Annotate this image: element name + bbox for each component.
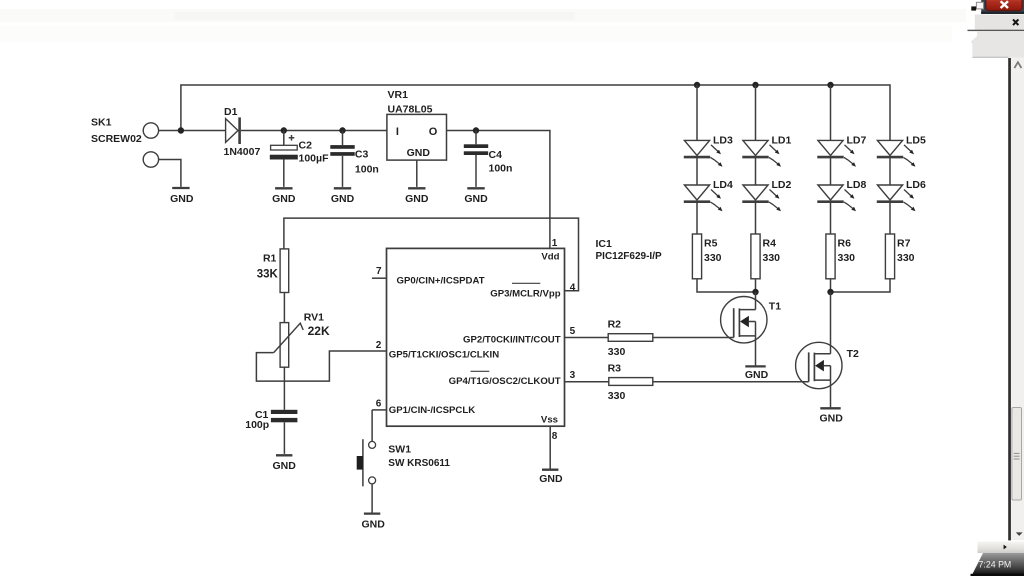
svg-text:LD4: LD4 — [713, 179, 733, 191]
wire LD6 to R7 — [889, 203, 891, 234]
svg-text:33K: 33K — [257, 269, 279, 281]
junction +V rail / LD1 column — [752, 82, 758, 88]
LED LD1 — [743, 140, 768, 155]
wire rail to LD1 — [755, 85, 757, 140]
svg-text:T2: T2 — [847, 348, 859, 360]
junction T1 drain node — [752, 289, 758, 295]
capacitor C1 — [271, 410, 298, 414]
resistor R5 — [692, 234, 701, 279]
svg-text:330: 330 — [608, 346, 626, 358]
ground GND (T1) — [745, 365, 765, 367]
wire R5 bottom to T1 drain node — [697, 279, 756, 292]
junction C2 node — [281, 127, 287, 133]
regulator VR1 — [387, 114, 447, 160]
svg-text:GND: GND — [820, 413, 844, 425]
wire Vss to ground — [549, 426, 551, 469]
svg-text:UA78L05: UA78L05 — [388, 103, 433, 115]
capacitor C2 — [283, 131, 285, 146]
junction +V rail / LD7 column — [827, 82, 833, 88]
wire SW1 to ground — [371, 484, 373, 513]
junction T2 drain node — [827, 289, 833, 295]
junction C4 node — [473, 127, 479, 133]
ground GND (SK1) — [172, 187, 189, 189]
svg-text:C3: C3 — [355, 149, 369, 161]
svg-text:GND: GND — [464, 193, 488, 205]
capacitor C4 — [475, 131, 477, 145]
connector SK1 pin 2 — [143, 152, 158, 167]
svg-text:R6: R6 — [838, 237, 852, 249]
connector SK1 pin 1 — [143, 123, 158, 138]
svg-text:GP3/MCLR/Vpp: GP3/MCLR/Vpp — [490, 288, 560, 299]
window border edge — [1008, 58, 1011, 540]
svg-text:LD7: LD7 — [847, 135, 867, 147]
svg-text:GND: GND — [745, 369, 769, 381]
wire RV1 to C1 — [283, 367, 285, 410]
wire VR1 output to Vdd — [447, 131, 550, 249]
wire LD2 to R4 — [755, 203, 757, 234]
toolbar band lower — [971, 31, 1024, 58]
svg-text:LD2: LD2 — [772, 179, 792, 191]
IC1 pin 6 stub — [372, 409, 386, 411]
resistor R7 — [885, 234, 894, 279]
svg-text:GND: GND — [362, 519, 386, 531]
scrollbar up arrow — [1014, 62, 1021, 68]
svg-text:3: 3 — [570, 370, 576, 381]
LED LD6 — [877, 185, 902, 200]
wire pin6 to SW1 — [371, 410, 373, 441]
svg-text:7:24 PM: 7:24 PM — [979, 559, 1012, 569]
LED LD4 — [684, 185, 709, 200]
scrollbar down arrow — [1016, 532, 1023, 536]
svg-text:GP2/T0CKI/INT/COUT: GP2/T0CKI/INT/COUT — [463, 334, 561, 345]
wire SK1 to D1 anode — [159, 130, 226, 132]
svg-text:330: 330 — [763, 252, 781, 264]
svg-text:100µF: 100µF — [299, 153, 330, 165]
wire R1 to RV1 — [283, 293, 285, 323]
svg-text:5: 5 — [570, 326, 576, 337]
scrollbar thumb grip — [1014, 453, 1020, 454]
capacitor C3 — [342, 131, 344, 146]
wire LD4 to R5 — [696, 203, 698, 234]
junction C3 node — [339, 127, 345, 133]
svg-text:330: 330 — [608, 390, 626, 402]
ground GND (C4) — [467, 187, 484, 189]
wire LD7 to LD8 — [830, 158, 832, 185]
svg-text:330: 330 — [704, 252, 722, 264]
svg-text:LD6: LD6 — [906, 179, 926, 191]
svg-text:R2: R2 — [608, 319, 622, 331]
inner close glyph — [1013, 19, 1018, 25]
svg-text:6: 6 — [376, 399, 382, 410]
svg-text:R3: R3 — [608, 362, 622, 374]
svg-text:22K: 22K — [308, 324, 330, 338]
taskbar notification arrow — [1004, 545, 1007, 550]
wire T1 source to ground — [755, 336, 757, 366]
IC1 T1G overline — [471, 370, 490, 372]
resistor R6 — [826, 234, 835, 279]
svg-text:GND: GND — [170, 193, 194, 205]
taskbar tray row — [978, 542, 1024, 553]
svg-text:R4: R4 — [763, 237, 777, 249]
ground GND (C1) — [276, 454, 292, 456]
svg-text:100n: 100n — [489, 163, 513, 175]
svg-text:O: O — [429, 126, 438, 138]
svg-text:1N4007: 1N4007 — [224, 146, 261, 158]
svg-text:LD8: LD8 — [847, 179, 867, 191]
wire rail to LD7 — [830, 85, 832, 140]
svg-text:GND: GND — [405, 193, 429, 205]
svg-text:GP5/T1CKI/OSC1/CLKIN: GP5/T1CKI/OSC1/CLKIN — [389, 349, 499, 360]
svg-text:GND: GND — [539, 473, 563, 485]
ground GND (T2) — [820, 407, 840, 409]
svg-text:Vdd: Vdd — [541, 252, 559, 263]
window title bar fragment — [981, 0, 1024, 14]
IC1 pin 7 stub — [372, 277, 387, 279]
svg-text:T1: T1 — [769, 300, 781, 312]
svg-text:R1: R1 — [263, 252, 277, 264]
ground GND (VR1) — [408, 187, 425, 189]
svg-text:RV1: RV1 — [304, 311, 324, 323]
resistor R3 — [609, 378, 653, 386]
IC1 pin 5 stub — [565, 337, 609, 339]
wire LD8 to R6 — [830, 203, 832, 234]
wire R6 bottom to T2 drain node — [830, 279, 832, 292]
wire T2 source to ground — [830, 380, 832, 407]
LED LD5 — [877, 140, 902, 155]
wire LD5 to LD6 — [889, 158, 891, 185]
ground GND (C3) — [334, 187, 351, 189]
svg-text:4: 4 — [570, 282, 576, 293]
svg-text:2: 2 — [376, 340, 382, 351]
diode D1 — [226, 119, 238, 143]
svg-text:GND: GND — [331, 193, 355, 205]
IC IC1 body — [387, 248, 565, 426]
svg-text:LD1: LD1 — [772, 135, 792, 147]
svg-text:SW KRS0611: SW KRS0611 — [388, 458, 450, 469]
wire +V rail — [181, 85, 890, 140]
LED LD7 — [818, 140, 843, 155]
ground GND (C2) — [275, 187, 292, 189]
wire rail to LD3 — [696, 85, 698, 140]
LED LD8 — [818, 185, 843, 200]
svg-text:330: 330 — [897, 252, 915, 264]
svg-text:8: 8 — [552, 431, 558, 442]
svg-text:I: I — [396, 126, 399, 138]
transistor T2 — [796, 342, 842, 388]
svg-text:GND: GND — [407, 147, 431, 159]
svg-text:GP4/T1G/OSC2/CLKOUT: GP4/T1G/OSC2/CLKOUT — [449, 376, 561, 387]
IC1 pin 3 stub — [565, 381, 609, 383]
svg-text:7: 7 — [376, 266, 382, 277]
svg-text:R7: R7 — [897, 237, 911, 249]
resistor R2 — [608, 334, 653, 342]
svg-text:1: 1 — [552, 238, 558, 249]
switch SW1 — [369, 441, 376, 448]
transistor T1 — [721, 297, 767, 343]
wire R3 to T2 gate — [653, 381, 809, 383]
junction +V rail / LD3 column — [694, 82, 700, 88]
svg-text:100n: 100n — [355, 164, 379, 176]
scrollbar thumb — [1012, 408, 1022, 501]
wire LD3 to LD4 — [696, 158, 698, 185]
svg-text:GP0/CIN+/ICSPDAT: GP0/CIN+/ICSPDAT — [397, 276, 485, 287]
ground GND (IC1 Vss) — [542, 469, 558, 471]
junction input node — [178, 127, 184, 133]
toolbar divider line — [968, 30, 1024, 31]
wire RV1 wiper to pin 2 — [256, 351, 386, 381]
svg-text:SK1: SK1 — [91, 117, 112, 129]
LED LD2 — [743, 185, 768, 200]
svg-text:VR1: VR1 — [388, 89, 409, 101]
wire D1 to VR1 input — [241, 130, 387, 132]
ground GND (SW1) — [364, 512, 380, 514]
wire MCLR net (pin4 to R1) — [284, 218, 579, 291]
IC1 MCLR overline — [512, 282, 540, 284]
svg-text:GP1/CIN-/ICSPCLK: GP1/CIN-/ICSPCLK — [389, 405, 475, 416]
svg-text:IC1: IC1 — [596, 238, 613, 250]
svg-text:PIC12F629-I/P: PIC12F629-I/P — [596, 251, 662, 262]
svg-text:R5: R5 — [704, 237, 718, 249]
resistor R4 — [751, 234, 760, 279]
svg-text:Vss: Vss — [541, 414, 558, 425]
LED LD3 — [684, 140, 709, 155]
wire LD1 to LD2 — [755, 158, 757, 185]
svg-text:LD5: LD5 — [906, 135, 926, 147]
svg-text:SCREW02: SCREW02 — [91, 133, 142, 145]
app window icon — [976, 2, 983, 9]
taskbar clock area — [972, 553, 1024, 576]
svg-text:GND: GND — [273, 460, 297, 472]
wire VR1 ground pin — [416, 160, 418, 187]
toolbar band upper — [975, 15, 1024, 30]
wire R7 bottom to T2 drain node — [831, 279, 891, 292]
wire R2 to T1 gate — [653, 337, 734, 339]
svg-text:C2: C2 — [299, 139, 313, 151]
svg-text:D1: D1 — [224, 106, 238, 118]
svg-text:100p: 100p — [245, 419, 269, 431]
window close button — [986, 0, 1022, 11]
wire SK1 pin2 to ground — [159, 160, 181, 187]
svg-text:SW1: SW1 — [388, 444, 411, 456]
potentiometer RV1 — [280, 323, 289, 368]
svg-text:GND: GND — [272, 193, 296, 205]
svg-text:LD3: LD3 — [713, 135, 733, 147]
resistor R1 — [280, 249, 289, 293]
scrollbar track — [1011, 58, 1024, 540]
wire R4 bottom to T1 drain node — [755, 279, 757, 292]
svg-text:330: 330 — [838, 252, 856, 264]
svg-text:C4: C4 — [489, 149, 503, 161]
